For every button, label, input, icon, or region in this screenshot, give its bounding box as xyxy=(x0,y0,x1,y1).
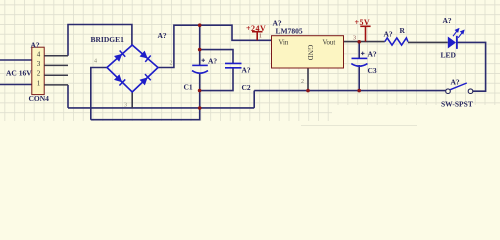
wire connector pin1 down xyxy=(67,85,69,108)
capacitor C3 xyxy=(351,58,367,66)
switch SW-SPST pole circle left xyxy=(446,89,451,94)
wire connector pin4 to bridge top xyxy=(68,25,132,56)
wire C1 bottom riser xyxy=(199,73,201,108)
sheet background xyxy=(0,0,500,135)
wire branch to C2 top xyxy=(200,50,233,63)
wire C3 top lead xyxy=(358,42,360,59)
junction node ground bus xyxy=(198,106,202,110)
wire loop bus bottom xyxy=(91,108,200,120)
svg-text:1: 1 xyxy=(37,79,41,87)
svg-text:A?: A? xyxy=(451,77,460,86)
wire Vout to resistor xyxy=(344,41,385,43)
svg-text:C2: C2 xyxy=(242,83,251,92)
junction node C3 ground xyxy=(357,89,361,93)
wire C2 bottom return xyxy=(200,68,233,91)
svg-text:+5V: +5V xyxy=(355,18,371,27)
svg-text:3: 3 xyxy=(124,103,127,109)
svg-text:A?: A? xyxy=(31,40,40,49)
wire bridge left lead down xyxy=(91,68,107,120)
svg-text:SW-SPST: SW-SPST xyxy=(441,100,473,109)
svg-text:A?: A? xyxy=(242,65,251,74)
svg-text:A?: A? xyxy=(208,56,217,65)
LED arrow 2 xyxy=(458,30,464,37)
svg-text:GND: GND xyxy=(306,45,314,61)
svg-text:4: 4 xyxy=(94,59,97,65)
junction node C2 branch xyxy=(198,48,202,52)
svg-text:C1: C1 xyxy=(184,82,193,91)
grid area left xyxy=(0,0,332,121)
svg-text:2: 2 xyxy=(37,70,41,78)
connector pin stubs xyxy=(44,56,68,85)
wire resistor to LED xyxy=(408,41,448,43)
svg-text:Vout: Vout xyxy=(323,40,336,47)
svg-text:4: 4 xyxy=(37,50,41,58)
svg-text:3: 3 xyxy=(37,60,41,68)
connector CON4 body xyxy=(32,47,44,94)
grid area right xyxy=(332,0,500,105)
svg-text:LED: LED xyxy=(441,51,457,60)
svg-text:2: 2 xyxy=(301,79,304,85)
wire ground step up xyxy=(253,91,255,108)
capacitor C2 xyxy=(225,63,242,67)
diode D-topleft xyxy=(114,51,125,62)
wire AC input top-left xyxy=(0,59,32,61)
C3 plus sign xyxy=(361,52,365,56)
LED cathode bar xyxy=(456,36,458,49)
junction node +5V / C3 tap xyxy=(357,40,361,44)
wire ground bus right xyxy=(254,90,446,92)
junction node regulator pin2 xyxy=(306,89,310,93)
diode D-topright xyxy=(139,50,150,61)
wire AC input bottom-left xyxy=(0,84,32,86)
switch lever xyxy=(450,83,467,90)
wire bridge bottom riser xyxy=(131,92,133,108)
svg-text:Vin: Vin xyxy=(279,40,289,47)
wire ground bus left xyxy=(68,107,254,109)
connector pin digits xyxy=(37,50,41,87)
svg-text:1: 1 xyxy=(259,34,262,40)
svg-text:AC 16V: AC 16V xyxy=(6,69,32,78)
wire C3 bottom lead xyxy=(358,65,360,91)
svg-text:+24V: +24V xyxy=(246,24,266,33)
diode D-bottomright xyxy=(139,74,150,85)
junction node top of C1 xyxy=(198,23,202,27)
svg-text:R: R xyxy=(400,26,406,35)
switch SW-SPST pole circle right xyxy=(468,89,473,94)
junction node C1/C2 ground xyxy=(198,89,202,93)
wire bridge right to regulator Vin xyxy=(158,25,272,67)
wire regulator pin2 down xyxy=(307,68,309,91)
power +5V symbol xyxy=(360,26,370,41)
regulator U LM7805 body xyxy=(272,36,344,68)
svg-text:A?: A? xyxy=(158,31,167,40)
power +24V symbol xyxy=(252,32,263,41)
faint bottom ghost line xyxy=(301,125,417,127)
svg-text:LM7805: LM7805 xyxy=(276,27,303,36)
LED diode symbol xyxy=(448,37,456,49)
svg-text:A?: A? xyxy=(384,30,393,39)
wire C1 top riser xyxy=(199,25,201,65)
wire LED to switch xyxy=(457,42,486,91)
svg-text:BRIDGE1: BRIDGE1 xyxy=(91,35,125,44)
svg-text:CON4: CON4 xyxy=(29,94,50,103)
svg-text:C3: C3 xyxy=(368,66,377,75)
svg-text:A?: A? xyxy=(443,16,452,25)
capacitor C1 xyxy=(192,65,208,73)
svg-text:3: 3 xyxy=(353,36,356,42)
LED arrow 1 xyxy=(453,29,459,36)
resistor R zigzag xyxy=(385,38,408,45)
svg-text:A?: A? xyxy=(368,50,377,59)
C1 plus sign xyxy=(202,59,206,63)
svg-text:2: 2 xyxy=(170,61,173,67)
bridge BRIDGE1 diamond xyxy=(107,45,158,92)
diode D-bottomleft xyxy=(114,74,125,85)
